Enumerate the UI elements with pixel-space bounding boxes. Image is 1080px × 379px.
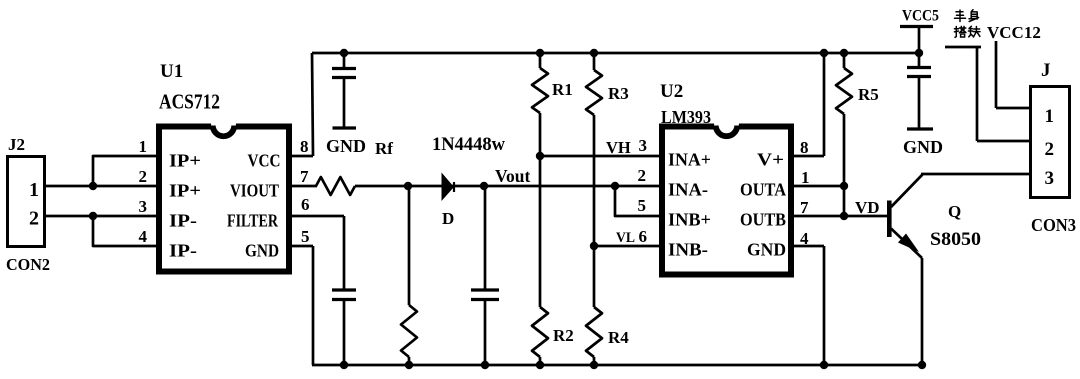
capacitor lead from top rail [343,53,346,69]
resistor R2 top lead [539,156,542,307]
junction dot R2 ground [536,361,544,369]
svg-text:1: 1 [801,168,810,187]
svg-text:OUTB: OUTB [740,210,786,230]
svg-text:R3: R3 [608,84,629,103]
svg-text:R4: R4 [608,328,629,347]
svg-text:6: 6 [301,195,310,214]
junction dot OUTA-R5 [840,182,848,190]
resistor R3 zigzag [586,70,602,115]
diode D triangle [442,173,455,202]
svg-text:2: 2 [638,166,647,185]
wire U2 pin8 up to rail [823,53,826,156]
junction dot R4 ground [590,361,598,369]
wire OUTA-OUTB link [843,186,846,216]
junction dot R5 top [840,49,848,57]
svg-text:R2: R2 [553,326,574,345]
wire VCC rail up-left [312,53,313,156]
svg-text:D: D [442,209,454,228]
svg-text:4: 4 [139,227,148,246]
capacitor C1 plates [332,67,356,70]
wire Rf to diode and Vout line [355,185,660,188]
svg-text:VH: VH [606,138,631,157]
capacitor C2 plates [332,288,356,291]
svg-text:LM393: LM393 [661,107,711,127]
svg-text:V+: V+ [757,150,784,170]
resistor R5 zigzag [836,68,852,114]
wire U2 pin4 stub [794,245,824,248]
wire U2 pin8 stub [794,155,824,158]
svg-text:IP+: IP+ [169,181,201,201]
resistor R5 bottom lead [843,114,846,186]
label chassis 车身 (vehicle body) [955,10,966,22]
resistor below diode zigzag [401,305,417,357]
svg-text:VCC5: VCC5 [902,8,939,25]
svg-text:INA-: INA- [668,180,708,200]
svg-text:IP-: IP- [169,211,197,231]
svg-text:GND: GND [245,241,279,261]
svg-text:8: 8 [800,138,809,157]
svg-text:FILTER: FILTER [227,211,279,231]
svg-text:3: 3 [139,197,148,216]
junction dot U2 V+ rail [820,49,828,57]
junction dot J2 pin1 node [89,182,97,190]
wire U1 pin5 stub [291,245,313,248]
junction dot top rail cap [340,49,348,57]
svg-text:1: 1 [139,137,148,156]
wire chassis ground down [976,47,979,141]
resistor R2 zigzag [532,307,548,357]
svg-text:R5: R5 [858,85,879,104]
svg-text:1: 1 [1045,106,1055,127]
transistor Q emitter [891,229,922,259]
wire chassis ground to J pin2 [977,140,1029,143]
junction dot Vout node [480,182,488,190]
resistor R1 bottom lead [539,113,542,156]
svg-text:CON3: CON3 [1031,215,1076,235]
wire jog down to U2 pin5 [615,186,660,216]
resistor bottom wire [408,357,411,365]
svg-text:J2: J2 [8,135,25,154]
junction dot emitter ground rail [918,361,926,369]
resistor R3 bottom lead [593,115,596,246]
svg-text:VCC12: VCC12 [987,23,1041,42]
svg-text:R1: R1 [552,80,573,99]
junction dot filter cap ground [340,361,348,369]
resistor R4 top lead [593,246,596,307]
wire U2 pin4 down to ground rail [823,246,826,365]
junction dot Rf-diode node [404,182,412,190]
junction dot U2 GND rail [820,361,828,369]
wire top supply rail [312,52,920,55]
diode D cathode bar [453,182,455,192]
ground bar GND left [333,126,357,129]
junction dot Vout to INB+ [611,182,619,190]
junction dot VCC5 rail [915,49,923,57]
wire U1 pin5 down to ground rail [312,246,315,365]
wire U1 pin8 stub [291,155,313,158]
resistor below diode node wire [408,186,411,305]
svg-text:Rf: Rf [375,139,393,158]
svg-text:2: 2 [29,208,39,230]
svg-text:GND: GND [747,240,786,260]
svg-text:IP-: IP- [169,241,197,261]
wire VCC12 to J pin1 [996,107,1029,110]
svg-text:7: 7 [300,167,309,186]
capacitor C4 top lead [918,53,921,68]
transistor Q base bar [887,201,892,238]
resistor Rf zigzag [316,177,355,195]
svg-text:J: J [1041,60,1051,81]
chassis ground bar [945,46,981,49]
wire jog up to U1 pin1 [93,156,156,186]
capacitor C4 bottom lead [918,78,921,128]
svg-text:1: 1 [29,179,39,201]
svg-text:IP+: IP+ [169,151,201,171]
wire U2 pin7 stub to base [794,215,888,218]
svg-text:INA+: INA+ [668,150,711,170]
junction dot OUTB link [840,212,848,220]
svg-text:VIOUT: VIOUT [230,181,279,201]
wire U2 pin1 stub [794,185,844,188]
resistor R3 top lead [593,53,596,70]
capacitor C3 plates [471,288,499,291]
svg-text:VD: VD [855,198,880,217]
wire emitter down to ground rail [921,258,924,365]
op-amp U1 box ACS712 [159,127,289,272]
svg-text:U2: U2 [660,81,683,102]
svg-text:1N4448w: 1N4448w [432,134,505,155]
junction dot R1 top [536,49,544,57]
svg-text:S8050: S8050 [930,229,981,250]
transistor Q collector [891,174,922,207]
svg-text:2: 2 [1045,139,1055,160]
wire J2 pin2 to node [44,215,156,218]
wire VH node to U2 pin3 [540,155,660,158]
op-amp U2 box LM393 [662,127,791,275]
connector J box [1031,87,1070,198]
junction dot output cap ground [481,361,489,369]
svg-text:GND: GND [903,137,943,157]
wire output cap down [484,186,487,290]
svg-text:3: 3 [1045,168,1055,189]
svg-text:INB+: INB+ [668,210,711,230]
junction dot resistor ground [405,361,413,369]
svg-text:ACS712: ACS712 [159,90,220,114]
wire bottom ground rail [312,364,922,367]
svg-text:6: 6 [639,227,648,246]
wire VCC5 down [918,27,921,54]
label chassis 搭铁 (chassis ground) [954,26,966,37]
svg-text:GND: GND [326,136,366,156]
wire collector to J pin3 [921,173,1029,176]
transistor Q emitter arrow [898,234,919,253]
ground bar GND right [907,127,933,130]
capacitor C1 bottom lead [343,79,346,127]
resistor R1 top lead [539,53,542,68]
connector J2 (CON2) box [8,157,45,247]
capacitor C4 plates [907,66,931,69]
svg-text:Vout: Vout [495,166,531,186]
resistor R2 bottom lead [539,357,542,365]
svg-text:VL: VL [616,230,635,246]
wire jog down to U1 pin4 [93,216,156,246]
junction dot J2 pin2 node [89,212,97,220]
svg-text:5: 5 [638,196,647,215]
resistor R1 zigzag [532,68,548,113]
svg-text:U1: U1 [160,61,183,82]
resistor R4 bottom lead [593,357,596,365]
svg-text:VCC: VCC [248,151,281,171]
capacitor C2 bottom lead [343,301,346,365]
power bar VCC5 [900,25,933,28]
svg-text:INB-: INB- [668,240,708,260]
wire U1 pin6 stub [291,215,344,218]
capacitor C3 bottom lead [484,301,487,365]
junction dot R3 top [590,49,598,57]
svg-text:3: 3 [639,136,648,155]
svg-text:7: 7 [800,198,809,217]
wire J2 pin1 to node [44,185,156,188]
svg-text:CON2: CON2 [6,255,50,274]
junction dot VH node [536,152,544,160]
resistor R5 top lead [843,53,846,68]
svg-text:Q: Q [948,202,961,221]
svg-text:OUTA: OUTA [740,180,786,200]
svg-text:5: 5 [301,227,310,246]
wire U1 pin7 stub [291,185,317,188]
wire VL node to U2 pin6 [594,245,660,248]
junction dot VL node [590,242,598,250]
resistor R4 zigzag [586,307,602,357]
svg-text:2: 2 [139,167,148,186]
wire filter cap down [343,216,346,290]
wire VCC12 down [995,41,998,108]
svg-text:8: 8 [300,137,309,156]
